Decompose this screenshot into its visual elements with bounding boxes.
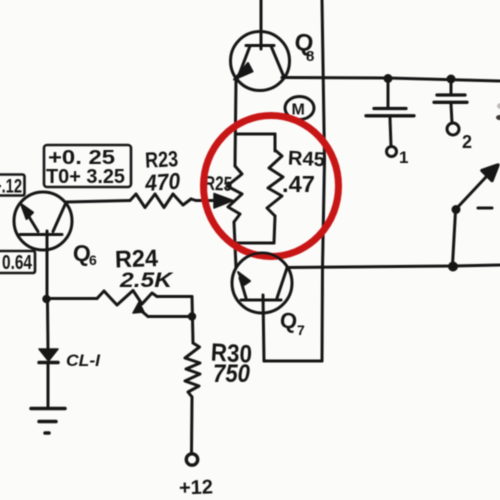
resistor R23 <box>66 194 196 208</box>
label Q6 <box>72 239 97 268</box>
wire <box>235 79 236 166</box>
svg-text:2: 2 <box>462 132 472 152</box>
svg-text:8: 8 <box>306 48 314 65</box>
transistor Q6 <box>14 192 72 250</box>
pin 2 <box>462 132 472 152</box>
label .47 <box>282 171 315 197</box>
svg-text:6: 6 <box>89 252 97 268</box>
wire <box>287 265 500 268</box>
switch S1 <box>452 165 499 265</box>
svg-text:470: 470 <box>143 168 181 196</box>
terminal 3 partial <box>496 103 500 120</box>
annotation highlight circle <box>204 116 339 257</box>
diode CL-1 <box>39 349 58 408</box>
capacitor C2 <box>434 78 467 135</box>
label 470 <box>143 168 181 196</box>
node junction <box>42 295 50 303</box>
callout box +0.25 TO+3.25 <box>44 145 131 187</box>
label R30 <box>210 339 252 369</box>
label Q7 <box>279 307 305 338</box>
svg-text:CL-I: CL-I <box>66 351 101 370</box>
label CL-1 <box>66 351 101 370</box>
node junction <box>188 312 196 320</box>
label 750 <box>213 360 250 388</box>
label R25 <box>204 173 233 196</box>
svg-text:7: 7 <box>297 322 305 338</box>
wire <box>234 222 236 268</box>
svg-text:+12: +12 <box>179 476 214 499</box>
label R45 <box>287 147 325 171</box>
transistor Q7 <box>232 253 292 313</box>
svg-text:750: 750 <box>213 360 250 388</box>
label +12 <box>179 476 214 499</box>
label Q8 <box>293 28 315 65</box>
svg-text:R45: R45 <box>287 147 325 171</box>
svg-text:2.5K: 2.5K <box>119 269 174 292</box>
potentiometer R24 <box>47 291 192 317</box>
wire <box>321 267 325 361</box>
svg-text:Q: Q <box>279 307 299 334</box>
meter M <box>285 97 314 120</box>
label minus <box>478 207 492 210</box>
terminal +12 <box>186 454 197 465</box>
svg-text:T0+ 3.25: T0+ 3.25 <box>46 166 125 188</box>
wire <box>46 303 50 349</box>
capacitor C1 <box>366 78 414 157</box>
resistor R45 <box>236 134 283 243</box>
wire <box>263 295 264 361</box>
svg-text:+.12: +.12 <box>0 177 22 198</box>
ground <box>31 409 65 434</box>
node junction <box>447 75 456 84</box>
svg-text:R25: R25 <box>204 173 233 196</box>
svg-text:1: 1 <box>399 148 408 167</box>
wire <box>192 297 193 344</box>
transistor Q8 <box>231 32 290 91</box>
potentiometer wiper arrow R25 <box>196 194 233 209</box>
callout box +.12 <box>0 175 25 196</box>
wire <box>236 133 275 136</box>
wire <box>282 78 500 82</box>
resistor R25 <box>227 166 242 222</box>
wire <box>46 231 49 299</box>
node junction <box>384 74 393 83</box>
svg-text:.47: .47 <box>282 171 315 197</box>
node junction <box>448 262 458 272</box>
pin 1 <box>399 148 408 167</box>
label 2.5K <box>119 269 174 292</box>
svg-text:0.64: 0.64 <box>2 252 33 274</box>
label R24 <box>115 245 160 274</box>
wire <box>260 0 263 49</box>
callout box 0.64 <box>0 251 35 273</box>
resistor R30 <box>185 343 200 452</box>
wire <box>264 360 322 363</box>
wire <box>322 0 325 267</box>
label R23 <box>144 146 178 173</box>
